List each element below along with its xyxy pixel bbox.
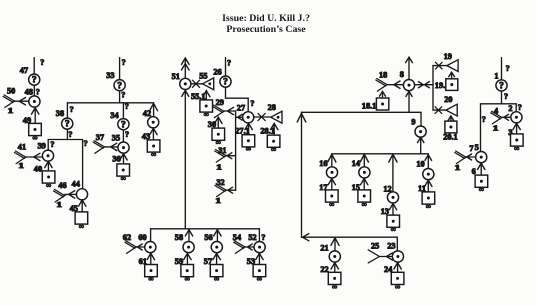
wire 33 down to bus <box>119 91 121 103</box>
arrow 57 to 56 <box>216 254 218 264</box>
arrowhead into 18 <box>394 81 400 88</box>
wire 32 to bus end <box>226 189 235 191</box>
circle 23 (dot) <box>392 251 403 262</box>
circle 21 (dot) <box>329 251 340 262</box>
circle 2 (dot) <box>511 112 522 123</box>
wire bracket to 20 <box>433 109 446 111</box>
wire 7-5 <box>466 156 476 158</box>
svg-text:2: 2 <box>508 104 512 113</box>
wire 26 to 27 (down right down) <box>226 87 249 111</box>
circle 12 (dot) <box>387 192 398 203</box>
arrow 12 up to bus <box>392 155 394 192</box>
svg-text:26: 26 <box>213 67 221 76</box>
long horizontal wire y=237.2 <box>302 236 398 238</box>
wire below 38 <box>66 130 68 140</box>
wire bus down to 34 <box>122 103 124 118</box>
svg-text:18: 18 <box>379 71 387 80</box>
arrow 61 to 60 <box>150 254 152 264</box>
cross mark 27-28 <box>254 116 271 118</box>
wire 29 to mid bus <box>224 110 236 112</box>
wire split to 39 <box>47 140 49 151</box>
wire bus corner down to 60 <box>150 229 152 242</box>
cross mark before 19 <box>436 62 443 69</box>
square 59 (dot) <box>181 265 194 284</box>
arrow 13 to 12 <box>392 204 394 215</box>
svg-text:41: 41 <box>18 142 26 151</box>
arrow 49 to 48 <box>34 109 36 124</box>
svg-text:?: ? <box>122 58 126 67</box>
angle 41 (testimony) <box>15 151 27 164</box>
arrow 30 to 29 <box>217 118 219 128</box>
arrow up into 9 from bus <box>420 138 422 154</box>
right split wire <box>481 104 517 152</box>
title line 2 <box>0 24 532 35</box>
square 6 (dot) <box>475 175 488 194</box>
svg-text:∞: ∞ <box>391 226 396 234</box>
arrowhead toward bus from 27 <box>238 114 243 120</box>
svg-text:∞: ∞ <box>514 144 519 152</box>
svg-text:1: 1 <box>215 196 221 205</box>
svg-text:1: 1 <box>493 124 499 133</box>
square 40 (dot) <box>42 171 55 190</box>
svg-text:∞: ∞ <box>46 181 51 189</box>
arrow 16 up to bus <box>331 155 333 167</box>
svg-text:5: 5 <box>475 143 479 152</box>
wire bus corner down to 10 <box>427 154 429 169</box>
arrow 42 up to bus <box>153 104 155 117</box>
svg-text:?: ? <box>121 90 125 99</box>
wire below 1 <box>501 91 503 104</box>
svg-text:14: 14 <box>352 159 360 168</box>
svg-text:∞: ∞ <box>332 283 337 291</box>
arrowhead top of 8 wire <box>406 57 413 62</box>
svg-text:∞: ∞ <box>79 222 84 230</box>
svg-text:∞: ∞ <box>426 202 431 210</box>
square 30 (dot) <box>212 128 225 147</box>
circle 56 (dot) <box>211 242 222 253</box>
angle 54 (testimony) <box>234 241 246 254</box>
svg-text:?: ? <box>250 99 254 108</box>
svg-text:?: ? <box>125 130 129 139</box>
svg-text:9: 9 <box>411 118 415 127</box>
wire 37-35 <box>105 146 119 148</box>
arrow 17 to 16 <box>331 179 333 190</box>
arrow 24 to 23 <box>397 263 399 272</box>
svg-text:39: 39 <box>38 142 46 151</box>
svg-text:?: ? <box>121 120 126 130</box>
wire 54-52 <box>245 246 254 248</box>
triangle 20 (empty) <box>446 104 457 116</box>
wire above circle 33 <box>119 58 121 80</box>
square 43 (dot) <box>147 140 160 159</box>
svg-text:?: ? <box>65 120 70 130</box>
svg-text:56: 56 <box>204 233 212 242</box>
cross mark right of 8 <box>418 82 423 88</box>
wire 50-48 <box>15 100 29 102</box>
arrow 14 up to bus <box>363 155 365 167</box>
arrow 19.1 to 19 <box>451 73 453 79</box>
circle 38 (?) <box>62 118 73 130</box>
arrowhead left end of bottom loop wire <box>303 234 309 241</box>
circle 27 (dot) <box>243 112 254 123</box>
circle 47 (?) <box>29 74 40 86</box>
arrow 56 up to bus <box>216 230 218 241</box>
arrow 28.1 to 28 <box>273 124 275 135</box>
svg-text:1: 1 <box>494 71 498 80</box>
svg-text:?: ? <box>261 233 265 242</box>
svg-text:∞: ∞ <box>395 283 400 291</box>
svg-text:47: 47 <box>20 66 28 75</box>
angle 62 (testimony) <box>125 241 137 254</box>
svg-text:29: 29 <box>216 98 224 107</box>
svg-text:18.1: 18.1 <box>362 101 377 110</box>
angle 31 (testimony) <box>215 150 227 163</box>
svg-text:∞: ∞ <box>185 275 190 283</box>
svg-text:?: ? <box>40 58 44 67</box>
wire 62-60 <box>136 246 145 248</box>
svg-text:8: 8 <box>400 70 404 79</box>
arrow below 51 from long wire <box>184 91 186 229</box>
square 28.1 (dot) <box>267 135 280 154</box>
circle 35 (dot) <box>118 142 129 153</box>
svg-text:∞: ∞ <box>246 145 251 153</box>
svg-text:22: 22 <box>320 265 328 274</box>
triangle 55 (dot) <box>203 78 214 90</box>
square 49 (dot) <box>29 123 42 141</box>
arrow 53 to 52 <box>258 254 260 264</box>
svg-text:?: ? <box>36 87 40 96</box>
wire corner down to 23 <box>396 237 398 251</box>
angle 46 (testimony) <box>54 189 66 202</box>
circle 34 (?) <box>118 119 129 131</box>
svg-text:?: ? <box>50 140 54 149</box>
svg-text:∞: ∞ <box>149 275 154 283</box>
circle 52 (dot) <box>254 242 265 253</box>
arrow 11 to 10 <box>427 181 429 192</box>
svg-text:?: ? <box>125 102 129 111</box>
wire above circle 51 <box>184 60 186 79</box>
svg-text:52: 52 <box>248 233 256 242</box>
arrow 15 to 14 <box>363 179 365 190</box>
svg-text:28: 28 <box>268 103 276 112</box>
angle 4 (testimony) <box>491 111 503 124</box>
svg-text:1: 1 <box>18 162 24 171</box>
svg-text:?: ? <box>32 76 37 86</box>
svg-text:40: 40 <box>34 164 42 173</box>
arrow 43 to 42 <box>152 129 154 140</box>
square 27.1 (dot) <box>242 135 255 154</box>
svg-text:10: 10 <box>416 159 424 168</box>
square 20.1 (dot) <box>445 121 457 133</box>
arrow 58 up to bus <box>188 230 190 241</box>
angle 25 (plain) <box>368 250 379 263</box>
arrow 18.1 to 18 <box>382 92 384 98</box>
main left bus wire <box>67 102 153 104</box>
svg-text:20.1: 20.1 <box>443 132 458 141</box>
arrow 59 to 58 <box>186 254 188 264</box>
square 61 (dot) <box>145 265 158 284</box>
svg-text:?: ? <box>482 115 486 124</box>
arrowhead under bus at 10 <box>425 155 432 161</box>
circle 8 (dot) <box>403 80 414 91</box>
svg-text:19: 19 <box>444 52 452 61</box>
long horizontal wire y=112.3 <box>302 111 422 113</box>
arrow up into 8 from loop wire <box>408 92 410 112</box>
wire 25-23 <box>379 256 392 258</box>
square 55.1 (dot) <box>200 100 213 119</box>
svg-text:35: 35 <box>112 133 120 142</box>
svg-text:1: 1 <box>8 106 14 115</box>
square 57 (dot) <box>210 265 223 284</box>
svg-text:16: 16 <box>319 159 327 168</box>
square 19.1 (dot) <box>446 79 458 91</box>
svg-text:∞: ∞ <box>257 275 262 283</box>
title line 1 <box>0 13 532 24</box>
svg-text:42: 42 <box>143 109 151 118</box>
svg-text:23: 23 <box>387 241 395 250</box>
svg-text:?: ? <box>499 82 504 92</box>
circle 51 (dot) <box>180 78 191 89</box>
circle 1 (?) <box>496 80 507 92</box>
circle 16 (dot) <box>326 167 337 178</box>
square 17 (dot) <box>326 190 339 209</box>
wire 4-2 <box>502 116 511 118</box>
svg-text:?: ? <box>518 103 522 112</box>
arrow 40 to 39 <box>47 162 49 171</box>
svg-text:?: ? <box>227 59 231 68</box>
angle 50 (testimony) <box>3 95 15 108</box>
mid vertical bus x=235.6 <box>235 111 237 190</box>
svg-text:28.1: 28.1 <box>260 126 275 135</box>
wire split to 44 <box>82 140 84 190</box>
svg-text:34: 34 <box>110 111 118 120</box>
svg-text:?: ? <box>70 105 74 114</box>
arrowhead into 32 <box>228 187 233 193</box>
arrow 55.1 to 55 <box>205 91 207 99</box>
wire 31 to bus <box>226 155 236 157</box>
triangle 19 (empty) <box>447 60 458 72</box>
svg-text:?: ? <box>504 92 508 101</box>
circle 5 (dot) <box>476 152 487 163</box>
svg-text:36: 36 <box>112 155 120 164</box>
svg-text:60: 60 <box>138 233 146 242</box>
wire above circle 26 <box>225 58 227 76</box>
wire above circle 8 <box>408 58 410 80</box>
svg-text:∞: ∞ <box>204 110 209 118</box>
svg-text:58: 58 <box>175 233 183 242</box>
arrowhead into 62 <box>137 244 142 250</box>
triangle 28 (dot) <box>271 111 282 123</box>
svg-text:?: ? <box>506 64 510 73</box>
split wire under 38 <box>48 139 82 141</box>
circle 60 (dot) <box>145 242 156 253</box>
arrowhead into 4 <box>504 114 509 120</box>
circle 9 (dot) <box>415 126 426 137</box>
square 53 (dot) <box>253 265 266 284</box>
wire bus down to 38 <box>66 103 68 118</box>
circle 33 (?) <box>114 80 125 92</box>
arrow 22 to 21 <box>334 263 336 272</box>
double arrowhead above 51 <box>182 58 190 64</box>
svg-text:51: 51 <box>172 72 180 81</box>
wire 47-48 <box>33 85 35 95</box>
square 15 (dot) <box>358 190 371 209</box>
svg-text:∞: ∞ <box>362 200 367 208</box>
arrow 27.1 to 27 <box>248 124 250 135</box>
angle 37 (testimony) <box>93 141 105 154</box>
svg-text:38: 38 <box>56 109 64 118</box>
svg-text:25: 25 <box>371 242 379 251</box>
svg-text:∞: ∞ <box>479 186 484 194</box>
circle 44 (empty) <box>76 189 87 200</box>
arrow 45 to 44 <box>81 201 83 213</box>
arrowhead into 46 <box>69 191 75 198</box>
wire 41-39 <box>26 156 43 158</box>
arrow 6 to 5 <box>480 164 482 176</box>
wire above circle 47 <box>33 58 35 75</box>
wire bus corner down to 52 <box>258 229 260 242</box>
svg-text:1: 1 <box>216 163 222 172</box>
svg-text:∞: ∞ <box>151 150 156 158</box>
square 11 (dot) <box>422 192 435 211</box>
circle 14 (dot) <box>359 167 370 178</box>
svg-text:∞: ∞ <box>121 174 126 182</box>
wire corner down to 9 <box>420 112 422 126</box>
square 45 (empty) <box>75 212 88 231</box>
svg-text:∞: ∞ <box>329 200 334 208</box>
svg-text:1: 1 <box>56 200 62 209</box>
square 3 (dot) <box>511 134 524 153</box>
circle 42 (dot) <box>148 117 159 128</box>
arrow 3 to 2 <box>516 124 518 134</box>
cross mark 51-55 <box>191 83 203 85</box>
arrow 20.1 to 20 <box>450 117 452 121</box>
arrowhead into 41 <box>34 153 40 160</box>
circle 48 (dot) <box>29 96 40 107</box>
arrowhead into 29 <box>227 107 233 114</box>
svg-text:7: 7 <box>469 144 473 153</box>
square 13 (dot) <box>387 215 400 234</box>
arrowhead up on long wire <box>297 113 306 122</box>
svg-text:∞: ∞ <box>271 146 276 154</box>
svg-text:?: ? <box>223 78 228 88</box>
svg-text:55: 55 <box>199 71 207 80</box>
svg-text:∞: ∞ <box>214 275 219 283</box>
square 36 (dot) <box>117 164 130 183</box>
angle 7 (testimony) <box>455 151 467 164</box>
circle 10 (dot) <box>423 169 434 180</box>
long vertical wire x=301.5 <box>301 112 303 237</box>
wire above circle 1 <box>501 58 503 80</box>
svg-text:?: ? <box>68 130 72 139</box>
square 22 (dot) <box>328 272 341 291</box>
circle 58 (dot) <box>183 242 194 253</box>
circle 26 (?) <box>220 76 231 88</box>
svg-text:48: 48 <box>25 88 33 97</box>
svg-text:21: 21 <box>320 243 328 252</box>
svg-text:20: 20 <box>444 95 452 104</box>
arrowhead into 7 <box>467 154 472 160</box>
wire 34-35 <box>122 130 124 142</box>
svg-text:33: 33 <box>106 71 114 80</box>
arrowhead into 37 <box>111 143 117 150</box>
svg-text:?: ? <box>84 139 88 148</box>
arrow 36 to 35 <box>123 154 125 164</box>
svg-text:1: 1 <box>455 164 461 173</box>
circle 39 (dot) <box>42 150 53 161</box>
angle 29 (testimony) <box>213 105 225 118</box>
cross mark before 20 <box>435 107 442 114</box>
angle 32 (testimony) <box>215 184 227 197</box>
arrowhead into 54 <box>247 244 252 250</box>
bracket wire for 19/20 <box>432 66 434 111</box>
svg-text:37: 37 <box>96 133 104 142</box>
square 18.1 (dot) <box>376 98 388 110</box>
wire 8 to bracket <box>415 84 433 86</box>
wire 46-44 <box>65 193 77 195</box>
wire 18-8 <box>387 84 403 86</box>
svg-text:50: 50 <box>7 86 15 95</box>
svg-text:27: 27 <box>237 104 245 113</box>
square 24 (dot) <box>391 272 404 291</box>
right bus wire y=153.8 <box>332 153 429 155</box>
wire bracket to 19 <box>433 65 447 67</box>
arrowhead into 50 <box>19 98 25 105</box>
arrowhead into 25 <box>386 253 392 260</box>
wire bus to 27 <box>236 116 243 118</box>
arrow 21 up to loop wire <box>334 238 336 251</box>
arrowhead into 31 <box>227 153 232 159</box>
svg-text:44: 44 <box>72 180 80 189</box>
angle 18 (testimony) <box>376 79 388 92</box>
svg-text:46: 46 <box>58 181 66 190</box>
bottom bus wire <box>151 228 260 230</box>
